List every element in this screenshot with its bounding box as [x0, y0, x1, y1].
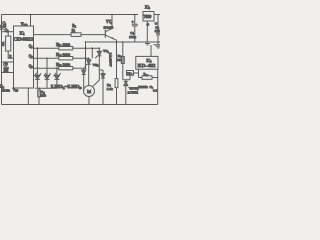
svg-text:VSS: VSS [13, 88, 19, 93]
wire O output [154, 15, 160, 34]
label 1A400V [108, 53, 112, 68]
diode VD1 [82, 68, 86, 89]
svg-text:IC1: IC1 [20, 31, 26, 36]
LED LED1 [34, 48, 41, 88]
svg-text:2CW51: 2CW51 [128, 91, 139, 95]
resistor R10 820k [138, 69, 157, 104]
resistor R5 300 [56, 63, 85, 70]
svg-text:R1: R1 [72, 24, 76, 29]
ground under C5 [154, 45, 161, 48]
resistor R8 5.1k [107, 40, 118, 104]
svg-text:SA: SA [1, 41, 5, 46]
wire VSS to ground [27, 88, 29, 105]
svg-text:Q1: Q1 [29, 44, 34, 49]
svg-text:1k: 1k [71, 29, 75, 33]
wire EN input [2, 67, 14, 72]
wire Q3 row [34, 67, 59, 69]
svg-text:VS2: VS2 [93, 63, 99, 68]
switch SA [1, 32, 14, 59]
capacitor C1 [0, 21, 7, 29]
wire to IC CP [2, 31, 14, 33]
svg-text:0.1: 0.1 [153, 88, 158, 92]
svg-text:Q3: Q3 [29, 64, 34, 69]
op IC3 KD-482 box [136, 45, 158, 69]
wire CP input [2, 62, 14, 67]
svg-text:9013: 9013 [104, 25, 114, 29]
ground under G [145, 44, 150, 46]
wire carry row [34, 34, 72, 36]
thyristor VS2 [85, 58, 99, 85]
svg-text:5.1k: 5.1k [107, 87, 113, 91]
transistor VT1 9013 [104, 15, 117, 41]
wire Q2 row [34, 57, 59, 59]
wire top VDD rail [2, 14, 139, 16]
svg-text:R3 300: R3 300 [56, 43, 70, 48]
svg-text:220μ: 220μ [129, 35, 136, 39]
capacitor C6 [150, 85, 158, 92]
svg-text:IC2: IC2 [145, 5, 151, 10]
wire bottom ground rail [2, 104, 158, 106]
op IC1 CD4022 box [9, 26, 33, 93]
svg-text:R4 300: R4 300 [56, 53, 70, 58]
diode VD2 [99, 70, 105, 105]
wire LED cathode bus [35, 85, 82, 90]
svg-text:CP: CP [3, 63, 7, 67]
LED LED3 [54, 68, 61, 88]
resistor R3 300 [56, 43, 99, 50]
capacitor C4 220u [129, 15, 138, 43]
motor M [84, 86, 95, 105]
capacitor C5 330 [155, 25, 160, 44]
wire left border [1, 15, 3, 105]
svg-text:+: + [132, 20, 134, 24]
transducer TC1 [123, 69, 142, 80]
thyristor VS1 [93, 48, 109, 86]
wire Q1 row [34, 47, 59, 49]
node Q2 [5, 28, 10, 33]
wire G drop [146, 21, 148, 42]
zener VDW1 2CW51 [124, 80, 140, 105]
svg-text:1A400V: 1A400V [108, 53, 112, 68]
resistor R1 1k [71, 24, 105, 36]
wire branch vertical [85, 42, 87, 68]
svg-text:R5 300: R5 300 [56, 63, 70, 68]
svg-text:VDD: VDD [21, 22, 28, 27]
svg-text:100k: 100k [2, 88, 10, 92]
svg-text:330: 330 [155, 29, 160, 33]
svg-text:300: 300 [117, 58, 122, 62]
svg-text:LED1~LED3: LED1~LED3 [51, 85, 82, 90]
resistor R2 100k [0, 85, 10, 93]
svg-text:KD–482: KD–482 [138, 63, 156, 68]
svg-text:820k: 820k [138, 85, 148, 89]
svg-text:R10: R10 [144, 72, 149, 77]
op IC2 7809 box [143, 5, 158, 26]
svg-text:7809: 7809 [144, 15, 152, 19]
svg-text:EN: EN [4, 68, 9, 72]
wire 9V bus [86, 41, 161, 43]
wire Q1-Q2 link [91, 48, 93, 58]
junction dots [30, 14, 148, 89]
svg-text:Q2: Q2 [29, 54, 34, 59]
svg-text:M: M [87, 89, 91, 94]
LED LED2 [44, 58, 51, 88]
svg-text:220: 220 [41, 94, 46, 98]
resistor R4 300 [56, 53, 88, 60]
resistor R9 300 [117, 42, 124, 80]
svg-text:CD4022: CD4022 [13, 36, 33, 41]
resistor R6 220 [38, 88, 46, 104]
wire VDD drop [21, 15, 31, 28]
